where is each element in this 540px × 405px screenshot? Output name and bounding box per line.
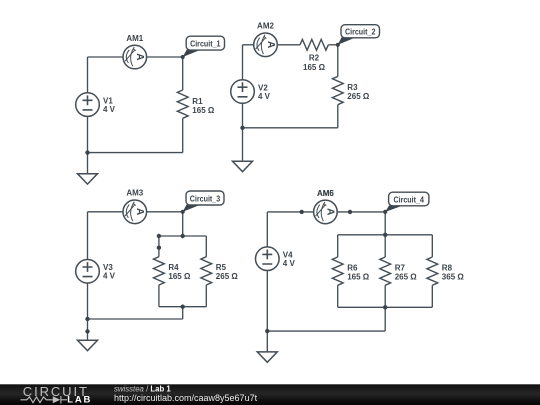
svg-text:AM6: AM6 xyxy=(317,189,334,198)
svg-text:Circuit_2: Circuit_2 xyxy=(345,27,375,37)
svg-text:4 V: 4 V xyxy=(283,259,296,268)
svg-text:R8: R8 xyxy=(442,264,453,273)
svg-text:AM3: AM3 xyxy=(126,189,143,198)
svg-text:R1: R1 xyxy=(192,97,203,106)
svg-text:R6: R6 xyxy=(347,264,358,273)
svg-text:4 V: 4 V xyxy=(258,92,271,101)
svg-text:4 V: 4 V xyxy=(103,105,116,114)
svg-text:265 Ω: 265 Ω xyxy=(216,272,239,281)
svg-text:Circuit_1: Circuit_1 xyxy=(190,39,220,49)
svg-text:265 Ω: 265 Ω xyxy=(347,92,370,101)
svg-text:AM1: AM1 xyxy=(126,34,143,43)
svg-text:165 Ω: 165 Ω xyxy=(168,272,191,281)
svg-text:265 Ω: 265 Ω xyxy=(395,273,418,282)
svg-text:R2: R2 xyxy=(309,54,320,63)
svg-text:165 Ω: 165 Ω xyxy=(303,63,326,72)
svg-text:LAB: LAB xyxy=(67,395,92,405)
svg-text:165 Ω: 165 Ω xyxy=(347,273,370,282)
svg-text:R3: R3 xyxy=(347,83,358,92)
svg-text:R4: R4 xyxy=(168,263,179,272)
svg-text:R7: R7 xyxy=(395,264,406,273)
svg-text:165 Ω: 165 Ω xyxy=(192,106,215,115)
svg-text:365 Ω: 365 Ω xyxy=(442,273,465,282)
svg-text:Circuit_3: Circuit_3 xyxy=(190,194,220,204)
svg-text:4 V: 4 V xyxy=(103,272,116,281)
svg-text:R5: R5 xyxy=(216,263,227,272)
svg-text:AM2: AM2 xyxy=(257,22,274,31)
svg-text:http://circuitlab.com/caaw8y5e: http://circuitlab.com/caaw8y5e67u7t xyxy=(114,393,258,403)
svg-text:Circuit_4: Circuit_4 xyxy=(393,195,424,205)
